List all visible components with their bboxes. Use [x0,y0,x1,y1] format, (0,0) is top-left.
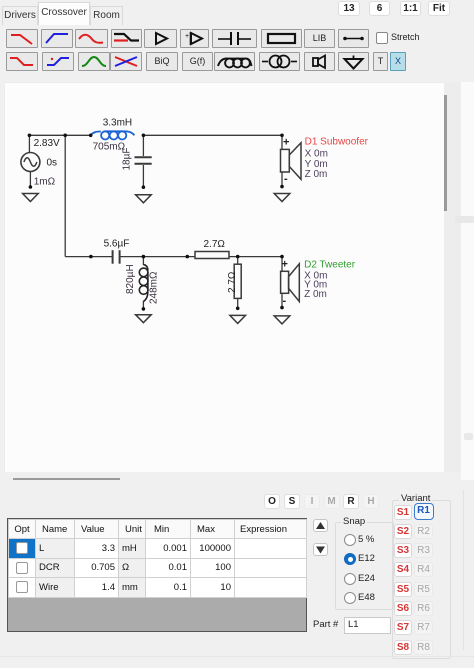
svg-text:D1 Subwoofer: D1 Subwoofer [305,137,369,148]
svg-text:5.6µF: 5.6µF [104,238,130,249]
svg-text:Z 0m: Z 0m [305,169,328,180]
svg-text:18µF: 18µF [122,148,133,171]
svg-text:-: - [284,173,288,185]
svg-text:3.3mH: 3.3mH [103,118,132,129]
svg-text:2.83V: 2.83V [34,138,60,149]
svg-text:820µH: 820µH [125,264,136,294]
svg-text:2.7Ω: 2.7Ω [204,239,226,250]
svg-text:+: + [185,33,189,40]
svg-text:-: - [283,295,287,307]
svg-text:0s: 0s [47,158,58,169]
svg-text:Z 0m: Z 0m [304,289,327,300]
svg-text:1mΩ: 1mΩ [34,177,56,188]
svg-text:2.7Ω: 2.7Ω [227,271,238,293]
svg-text:D2 Tweeter: D2 Tweeter [304,260,356,271]
svg-text:+: + [282,259,288,271]
svg-text:+: + [283,137,289,149]
svg-text:248mΩ: 248mΩ [149,271,160,304]
